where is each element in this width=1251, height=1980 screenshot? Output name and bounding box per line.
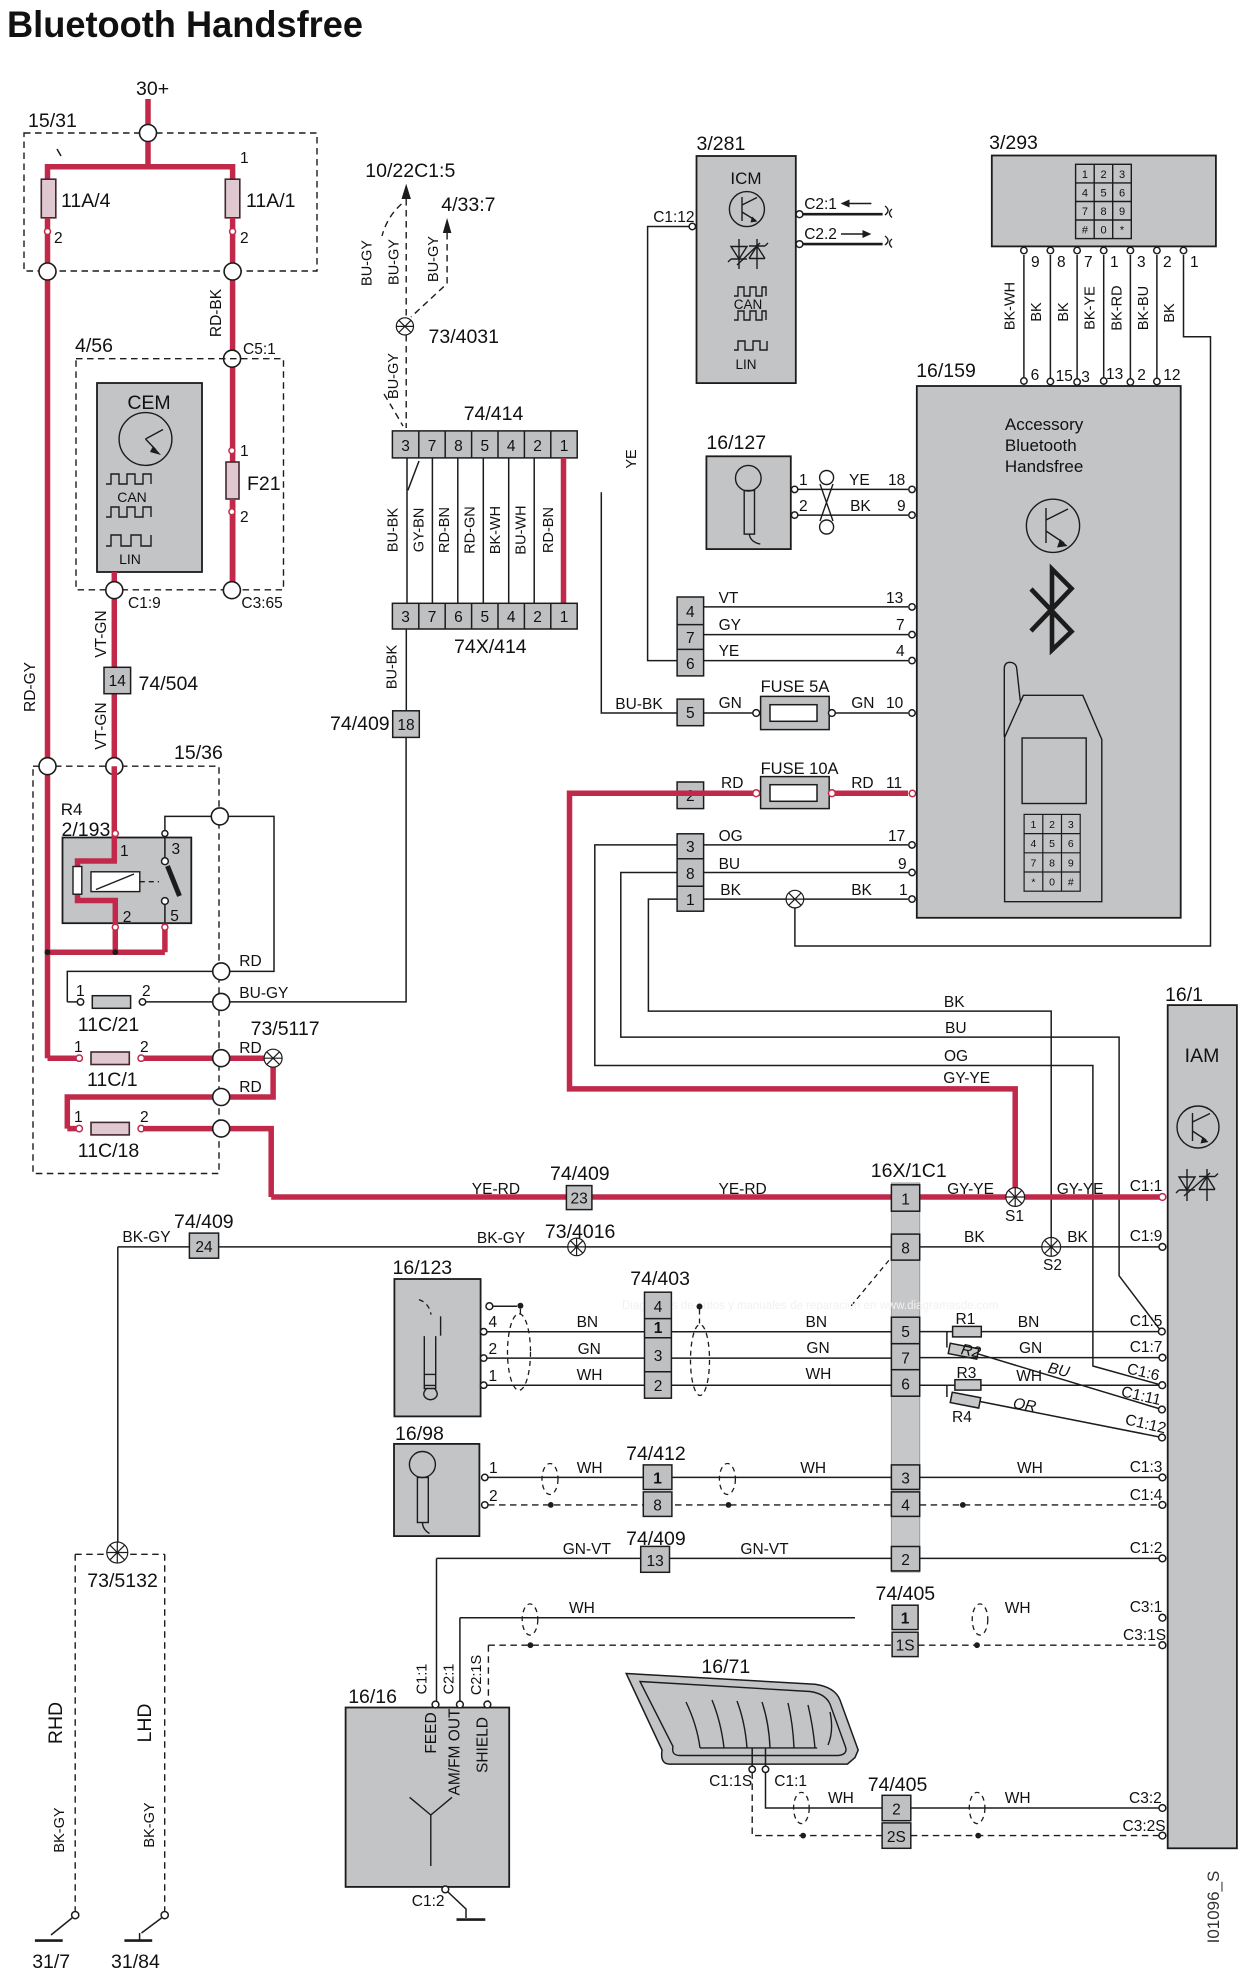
svg-text:CAN: CAN	[734, 297, 763, 312]
connector 16X left cells	[677, 597, 704, 911]
svg-text:VT: VT	[719, 590, 739, 607]
svg-text:WH: WH	[800, 1460, 826, 1477]
svg-text:C2:1: C2:1	[442, 1664, 458, 1695]
svg-text:14: 14	[109, 673, 127, 690]
svg-text:BK: BK	[964, 1229, 985, 1246]
svg-text:OG: OG	[719, 828, 743, 845]
svg-text:WH: WH	[569, 1600, 595, 1617]
svg-text:BU: BU	[1046, 1360, 1072, 1382]
svg-text:BK-BU: BK-BU	[1136, 286, 1152, 330]
svg-text:18: 18	[397, 717, 414, 734]
relay pin 1	[112, 831, 118, 837]
svg-text:BK-WH: BK-WH	[488, 506, 504, 554]
wire BK	[704, 898, 908, 900]
svg-text:16/127: 16/127	[706, 432, 766, 454]
svg-text:4: 4	[654, 1299, 663, 1316]
svg-text:3: 3	[1081, 369, 1090, 386]
IAM pin C1:9	[1159, 1244, 1166, 1251]
node edge RD	[213, 1089, 230, 1106]
svg-text:WH: WH	[577, 1460, 603, 1477]
IAM pin C1:5	[1158, 1328, 1165, 1335]
svg-text:Diagramas de autos y manuales: Diagramas de autos y manuales de reparac…	[622, 1300, 999, 1312]
svg-text:C1:2: C1:2	[412, 1893, 445, 1910]
svg-text:30+: 30+	[136, 78, 169, 100]
connector 74X/414	[392, 603, 577, 629]
svg-text:C1:1: C1:1	[415, 1664, 431, 1695]
svg-text:BU-WH: BU-WH	[514, 505, 530, 554]
wire OG	[704, 844, 908, 846]
svg-text:2: 2	[533, 438, 542, 455]
svg-text:C2:1S: C2:1S	[469, 1655, 485, 1695]
wire WH antenna row	[460, 1617, 855, 1619]
svg-text:2: 2	[489, 1341, 498, 1358]
svg-text:2: 2	[654, 1378, 663, 1395]
svg-text:9: 9	[1068, 857, 1074, 869]
svg-text:6: 6	[1068, 838, 1074, 850]
svg-text:3: 3	[1068, 819, 1074, 831]
svg-text:4/56: 4/56	[75, 335, 113, 357]
keypad pins top	[1021, 247, 1199, 271]
keypad pins bottom	[1021, 366, 1181, 386]
svg-text:13: 13	[886, 590, 903, 607]
splice S1	[1006, 1188, 1025, 1207]
svg-text:13: 13	[1106, 366, 1123, 383]
svg-text:17: 17	[888, 828, 905, 845]
svg-text:2: 2	[142, 983, 151, 1000]
ground 31/84	[161, 1912, 168, 1919]
svg-text:OR: OR	[1012, 1395, 1038, 1416]
svg-text:C2:1: C2:1	[804, 196, 837, 213]
svg-text:7: 7	[428, 438, 437, 455]
svg-text:1: 1	[560, 609, 569, 626]
relay coil	[91, 872, 140, 892]
wire WH row	[487, 1384, 1159, 1386]
svg-text:C1:1S: C1:1S	[709, 1773, 752, 1790]
svg-text:16/123: 16/123	[393, 1257, 453, 1279]
svg-text:C1:4: C1:4	[1130, 1487, 1163, 1504]
IAM pin C3:1S	[1159, 1642, 1166, 1649]
node on 15/36 edge mid	[106, 758, 123, 775]
node C5:1	[224, 350, 241, 367]
svg-text:16X/1C1: 16X/1C1	[871, 1160, 947, 1182]
svg-text:RD-GY: RD-GY	[22, 662, 39, 712]
svg-text:8: 8	[454, 438, 463, 455]
wire fuse feed bus	[48, 167, 233, 182]
svg-text:16/98: 16/98	[395, 1423, 444, 1445]
wire leader tick	[408, 461, 419, 491]
pin C2.2	[796, 241, 803, 248]
wire BU	[704, 872, 908, 874]
svg-text:RD: RD	[239, 1079, 261, 1096]
svg-text:1: 1	[1082, 169, 1088, 181]
svg-text:YE-RD: YE-RD	[719, 1181, 767, 1198]
fusebox 15/31 dashed	[24, 133, 317, 271]
svg-text:6: 6	[454, 609, 463, 626]
svg-text:1: 1	[899, 882, 908, 899]
svg-text:BN: BN	[806, 1314, 828, 1331]
svg-text:1: 1	[653, 1471, 662, 1488]
svg-text:I01096_S: I01096_S	[1204, 1871, 1223, 1944]
svg-text:4/33:7: 4/33:7	[441, 194, 495, 216]
svg-text:74/409: 74/409	[550, 1163, 610, 1185]
wire BN row	[487, 1331, 1159, 1333]
wire shield dashed mic	[488, 1504, 1159, 1506]
svg-text:1: 1	[560, 438, 569, 455]
svg-text:RD: RD	[239, 953, 261, 970]
svg-text:C3:2: C3:2	[1129, 1790, 1162, 1807]
svg-text:2: 2	[240, 509, 249, 526]
svg-text:BK: BK	[851, 882, 872, 899]
svg-text:2: 2	[123, 909, 132, 926]
relay box 15/36 dashed	[33, 766, 219, 1173]
svg-text:S2: S2	[1043, 1257, 1062, 1274]
node junction dots	[45, 949, 51, 955]
wire BK-GY main	[118, 1246, 892, 1248]
svg-text:2: 2	[140, 1039, 149, 1056]
svg-text:31/7: 31/7	[32, 1951, 70, 1973]
svg-text:9: 9	[1119, 206, 1125, 218]
svg-text:C1:6: C1:6	[1125, 1361, 1161, 1385]
svg-text:VT-GN: VT-GN	[93, 610, 110, 657]
svg-text:*: *	[1120, 225, 1125, 237]
svg-text:BU-BK: BU-BK	[386, 508, 402, 553]
svg-text:12: 12	[1163, 367, 1180, 384]
svg-text:C3:1: C3:1	[1130, 1599, 1163, 1616]
svg-text:GY-YE: GY-YE	[943, 1070, 990, 1087]
svg-text:BK: BK	[944, 994, 965, 1011]
svg-text:3: 3	[901, 1471, 910, 1488]
svg-text:YE: YE	[719, 643, 740, 660]
svg-text:GN: GN	[851, 695, 874, 712]
svg-text:BU-BK: BU-BK	[615, 696, 663, 713]
fuse 11C/18	[67, 1126, 78, 1132]
svg-text:BU-GY: BU-GY	[360, 240, 376, 286]
svg-text:R4: R4	[952, 1409, 972, 1426]
wire 11A/1 down	[230, 218, 236, 590]
pin C1:12	[689, 223, 695, 229]
fuse F21	[230, 462, 236, 590]
svg-text:15: 15	[1056, 368, 1073, 385]
svg-text:C3:2S: C3:2S	[1123, 1818, 1166, 1835]
svg-text:7: 7	[896, 617, 905, 634]
node C1:9	[106, 582, 123, 599]
IAM pin C1:11	[1159, 1406, 1166, 1413]
svg-text:BK: BK	[850, 498, 871, 515]
wire pin5 down	[162, 924, 168, 953]
wire BU-GY	[146, 737, 406, 1002]
svg-text:*: *	[1031, 877, 1035, 889]
node loop top	[211, 808, 228, 825]
svg-text:WH: WH	[1017, 1460, 1043, 1477]
svg-text:1: 1	[901, 1192, 910, 1209]
svg-text:1: 1	[240, 150, 249, 167]
ground C1:2	[442, 1886, 449, 1893]
resistor R3	[955, 1380, 981, 1390]
svg-text:5: 5	[686, 705, 695, 722]
svg-text:S1: S1	[1005, 1208, 1024, 1225]
svg-text:C1:12: C1:12	[653, 209, 694, 226]
svg-text:RD-BK: RD-BK	[208, 288, 225, 337]
svg-text:11: 11	[886, 775, 902, 792]
svg-text:RHD: RHD	[45, 1702, 67, 1744]
svg-text:5: 5	[480, 438, 489, 455]
svg-text:1: 1	[489, 1460, 498, 1477]
wire 11A/4 to CEM	[45, 218, 51, 1058]
svg-text:#: #	[1068, 877, 1074, 889]
svg-text:73/5132: 73/5132	[87, 1570, 158, 1592]
svg-text:4: 4	[1082, 188, 1088, 200]
svg-text:11C/1: 11C/1	[87, 1069, 138, 1091]
svg-text:74/403: 74/403	[630, 1268, 690, 1290]
svg-text:2: 2	[140, 1109, 149, 1126]
fuse FUSE 5A	[704, 712, 753, 714]
wire WH mic row	[488, 1476, 1159, 1478]
svg-text:8: 8	[653, 1498, 662, 1515]
svg-text:8: 8	[686, 866, 695, 883]
fuse 11C/1	[48, 1055, 79, 1061]
svg-text:BK-GY: BK-GY	[52, 1807, 68, 1852]
svg-text:C3:65: C3:65	[241, 595, 282, 612]
fuse 11C/21	[67, 1001, 79, 1003]
svg-text:3: 3	[172, 841, 181, 858]
svg-text:31/84: 31/84	[111, 1951, 160, 1973]
svg-text:1: 1	[1110, 254, 1119, 271]
svg-text:BK-RD: BK-RD	[1110, 285, 1126, 330]
svg-text:C1:9: C1:9	[1130, 1228, 1163, 1245]
svg-text:7: 7	[428, 609, 437, 626]
svg-text:74/409: 74/409	[330, 713, 390, 735]
svg-text:GN: GN	[1019, 1340, 1042, 1357]
svg-text:8: 8	[1049, 857, 1055, 869]
svg-text:73/5117: 73/5117	[251, 1018, 320, 1040]
wire splice to 11C/18	[67, 1058, 273, 1128]
svg-text:R4: R4	[61, 800, 83, 819]
svg-text:WH: WH	[1016, 1368, 1042, 1385]
svg-text:4: 4	[507, 438, 516, 455]
svg-text:GN-VT: GN-VT	[740, 1541, 789, 1558]
svg-text:BN: BN	[577, 1314, 599, 1331]
svg-text:GN: GN	[806, 1340, 829, 1357]
svg-text:GN-VT: GN-VT	[563, 1541, 612, 1558]
svg-text:2: 2	[901, 1552, 910, 1569]
wire YE mic	[798, 488, 908, 490]
wire GN-VT row	[437, 1557, 1160, 1559]
ground 31/7	[72, 1912, 79, 1919]
IAM pin C1:4	[1159, 1502, 1166, 1509]
svg-text:C3:1S: C3:1S	[1123, 1627, 1166, 1644]
svg-text:0: 0	[1049, 877, 1055, 889]
svg-text:BK: BK	[1162, 303, 1178, 323]
svg-text:LIN: LIN	[735, 357, 756, 372]
wire shield dashed antenna	[488, 1644, 1159, 1646]
node 11C/18 edge	[213, 1120, 230, 1137]
relay pin 3	[162, 831, 168, 837]
svg-text:Handsfree: Handsfree	[1005, 457, 1083, 476]
pin 2 11A/1	[230, 229, 236, 235]
svg-text:1: 1	[74, 1039, 83, 1056]
splice 73/5132	[75, 1553, 165, 1555]
svg-text:WH: WH	[1005, 1600, 1031, 1617]
svg-text:3/293: 3/293	[989, 132, 1038, 154]
svg-text:2: 2	[1049, 819, 1055, 831]
svg-text:11C/21: 11C/21	[78, 1014, 139, 1036]
svg-text:YE-RD: YE-RD	[472, 1181, 520, 1198]
svg-text:FEED: FEED	[423, 1712, 440, 1753]
svg-text:4: 4	[901, 1498, 910, 1515]
svg-text:GN: GN	[719, 695, 742, 712]
svg-text:1: 1	[120, 843, 129, 860]
svg-text:Bluetooth Handsfree: Bluetooth Handsfree	[7, 4, 363, 45]
svg-text:BK-GY: BK-GY	[142, 1802, 158, 1847]
twisted pair symbol	[820, 471, 834, 535]
IAM pin C3:2S	[1159, 1832, 1166, 1839]
svg-text:11C/18: 11C/18	[78, 1140, 139, 1162]
IAM pin C1:2	[1159, 1555, 1166, 1562]
svg-text:GY: GY	[719, 617, 741, 634]
node loop bottom	[213, 963, 230, 980]
svg-text:8: 8	[1057, 254, 1066, 271]
svg-text:6: 6	[901, 1377, 910, 1394]
svg-text:9: 9	[897, 498, 906, 515]
wire R4 diagonal to C1:12	[980, 1402, 1162, 1438]
wire GN row	[487, 1357, 1159, 1360]
svg-text:16/16: 16/16	[348, 1686, 397, 1708]
svg-text:BK-YE: BK-YE	[1083, 286, 1099, 330]
node 11C/1 edge	[213, 1050, 230, 1067]
pin C2:1	[796, 211, 803, 218]
svg-text:18: 18	[888, 472, 905, 489]
wire relay coil red path	[78, 766, 116, 952]
node 11A/1 out	[224, 263, 241, 280]
svg-text:BK-GY: BK-GY	[477, 1230, 525, 1247]
svg-text:2: 2	[54, 230, 63, 247]
svg-text:5: 5	[170, 908, 179, 925]
svg-text:0: 0	[1100, 225, 1106, 237]
wire YE	[704, 660, 908, 662]
svg-text:4: 4	[896, 643, 905, 660]
svg-text:3/281: 3/281	[697, 133, 746, 155]
svg-text:#: #	[1082, 225, 1089, 237]
svg-text:74/504: 74/504	[139, 673, 199, 695]
svg-text:1: 1	[901, 1611, 910, 1628]
fuse 11A/1	[225, 179, 240, 218]
svg-text:7: 7	[1082, 206, 1088, 218]
wire relay pin3 loop RD	[67, 816, 274, 1002]
IAM pin C3:1	[1159, 1614, 1166, 1621]
svg-text:1: 1	[799, 472, 808, 489]
svg-text:4: 4	[686, 604, 695, 621]
svg-text:74/405: 74/405	[876, 1583, 936, 1605]
svg-text:16/1: 16/1	[1165, 984, 1203, 1006]
svg-text:BU-GY: BU-GY	[239, 985, 288, 1002]
svg-text:BU-GY: BU-GY	[386, 239, 402, 285]
svg-text:BK: BK	[1029, 302, 1045, 322]
svg-text:1: 1	[489, 1368, 498, 1385]
svg-text:YE: YE	[624, 449, 640, 469]
svg-text:3: 3	[686, 839, 695, 856]
svg-text:4: 4	[489, 1314, 498, 1331]
relay coil core	[73, 867, 82, 895]
svg-text:1: 1	[1190, 254, 1199, 271]
pin tick 1 (left fuse)	[57, 149, 61, 156]
svg-text:BU-GY: BU-GY	[386, 353, 402, 399]
wire drops 74/414 to 74X/414	[407, 458, 534, 603]
svg-text:WH: WH	[577, 1367, 603, 1384]
svg-text:BK: BK	[1056, 302, 1072, 322]
svg-text:4: 4	[507, 609, 516, 626]
svg-text:C2.2: C2.2	[804, 226, 837, 243]
svg-text:BU: BU	[945, 1020, 967, 1037]
svg-text:7: 7	[686, 630, 695, 647]
wire RD + GY-YE main red	[570, 793, 1016, 1197]
svg-text:C1:12: C1:12	[1124, 1411, 1168, 1437]
wire YE from ICM	[648, 227, 693, 661]
ecu box 4/56 dashed	[76, 359, 284, 590]
svg-text:OG: OG	[944, 1048, 968, 1065]
svg-text:5: 5	[901, 1324, 910, 1341]
wire WH speaker	[766, 1773, 1160, 1809]
shield dot right	[697, 1304, 703, 1310]
svg-text:C1:7: C1:7	[1130, 1339, 1163, 1356]
svg-text:BK: BK	[720, 882, 741, 899]
svg-text:RD: RD	[851, 775, 873, 792]
svg-text:5: 5	[1100, 188, 1106, 200]
svg-text:BU-BK: BU-BK	[385, 645, 401, 690]
svg-text:3: 3	[1137, 254, 1146, 271]
IAM pin C1:12	[1159, 1434, 1166, 1441]
resistor R2	[948, 1343, 978, 1359]
svg-text:CEM: CEM	[127, 392, 170, 414]
svg-text:16/159: 16/159	[916, 360, 976, 382]
svg-text:74/409: 74/409	[174, 1211, 234, 1233]
svg-text:3: 3	[1119, 169, 1125, 181]
shield ellipse left	[508, 1314, 531, 1391]
wire BK mic	[798, 514, 908, 516]
svg-text:10/22C1:5: 10/22C1:5	[365, 160, 455, 182]
svg-text:Accessory: Accessory	[1005, 415, 1084, 434]
wire red bus	[48, 949, 165, 955]
svg-text:WH: WH	[1005, 1790, 1031, 1807]
node 11A/4 out	[39, 263, 56, 280]
svg-text:13: 13	[646, 1553, 663, 1570]
svg-text:11A/1: 11A/1	[246, 190, 296, 212]
svg-text:9: 9	[1031, 254, 1040, 271]
svg-text:2: 2	[1100, 169, 1106, 181]
svg-text:11A/4: 11A/4	[61, 190, 111, 212]
resistor R1	[953, 1326, 982, 1337]
svg-text:R3: R3	[957, 1365, 977, 1382]
node junction 30+	[140, 125, 157, 142]
svg-text:2: 2	[489, 1488, 498, 1505]
svg-text:IAM: IAM	[1185, 1045, 1220, 1067]
svg-text:1: 1	[74, 1109, 83, 1126]
svg-text:RD: RD	[721, 775, 743, 792]
wire VT	[704, 606, 908, 608]
svg-text:LIN: LIN	[119, 551, 141, 567]
svg-text:SHIELD: SHIELD	[475, 1717, 492, 1773]
wire BK to IAM	[891, 1246, 1159, 1248]
svg-text:16/71: 16/71	[701, 1656, 750, 1678]
svg-text:3: 3	[401, 609, 410, 626]
svg-text:BK-WH: BK-WH	[1003, 282, 1019, 330]
wire R2 diagonal to C1:11	[978, 1354, 1162, 1410]
svg-text:BK: BK	[1067, 1229, 1088, 1246]
svg-text:RD: RD	[239, 1040, 261, 1057]
svg-text:BN: BN	[1018, 1314, 1040, 1331]
svg-text:R2: R2	[959, 1341, 982, 1362]
node BU-GY edge	[213, 993, 230, 1010]
svg-text:7: 7	[901, 1351, 910, 1368]
